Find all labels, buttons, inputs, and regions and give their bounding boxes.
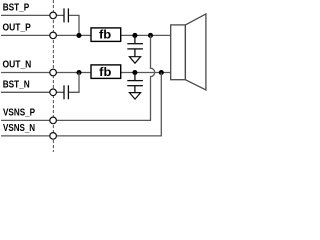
wire VSNS_P horizontal: [1, 119, 151, 121]
node dot VSNS_N tap / speaker neg: [159, 70, 164, 75]
svg-text:BST_P: BST_P: [3, 3, 30, 14]
wire VSNS_P riser with hop over OUT_N: [151, 35, 155, 120]
terminal circle VSNS_P: [50, 117, 57, 124]
wire VSNS_N horizontal: [1, 135, 162, 137]
ground P: [129, 57, 140, 64]
capacitor C_BST_N: [64, 85, 68, 99]
speaker cone: [185, 14, 206, 90]
node dot P filter cap junction: [132, 33, 137, 38]
svg-text:VSNS_N: VSNS_N: [3, 123, 35, 134]
svg-text:BST_N: BST_N: [3, 79, 30, 90]
node dot BST_N/OUT_N junction: [76, 70, 81, 75]
capacitor to ground P: [127, 35, 143, 56]
terminal circle OUT_N: [50, 69, 57, 76]
terminal circle BST_P: [50, 12, 57, 19]
fb box U_P: [91, 28, 121, 42]
wire OUT_P lead: [1, 34, 91, 36]
capacitor to ground N: [127, 73, 143, 93]
terminal circle OUT_P: [50, 32, 57, 39]
terminal circle VSNS_N: [50, 133, 57, 140]
svg-text:VSNS_P: VSNS_P: [3, 108, 35, 119]
wire OUT_N lead: [1, 72, 91, 74]
svg-text:OUT_P: OUT_P: [3, 23, 32, 34]
node dot BST_P/OUT_P junction: [76, 33, 81, 38]
ground N: [129, 93, 140, 100]
svg-text:fb: fb: [99, 65, 111, 79]
IC boundary dashed line: [52, 0, 54, 152]
wire OUT_N to speaker: [121, 72, 171, 74]
svg-text:fb: fb: [99, 28, 111, 42]
wire OUT_P to speaker: [121, 34, 171, 36]
wire BST_P cap to OUT_P corner: [68, 15, 79, 35]
wire BST_P lead: [1, 14, 64, 16]
fb box U_N: [91, 65, 121, 79]
capacitor C_BST_P: [64, 8, 68, 22]
wire BST_N lead: [1, 91, 64, 93]
speaker driver body: [171, 25, 186, 80]
wire BST_N cap to OUT_N corner: [68, 73, 79, 93]
wire VSNS_N riser: [160, 73, 162, 136]
svg-text:OUT_N: OUT_N: [3, 60, 32, 71]
node dot VSNS_P tap: [148, 33, 153, 38]
node dot N filter cap junction: [132, 70, 137, 75]
terminal circle BST_N: [50, 89, 57, 96]
